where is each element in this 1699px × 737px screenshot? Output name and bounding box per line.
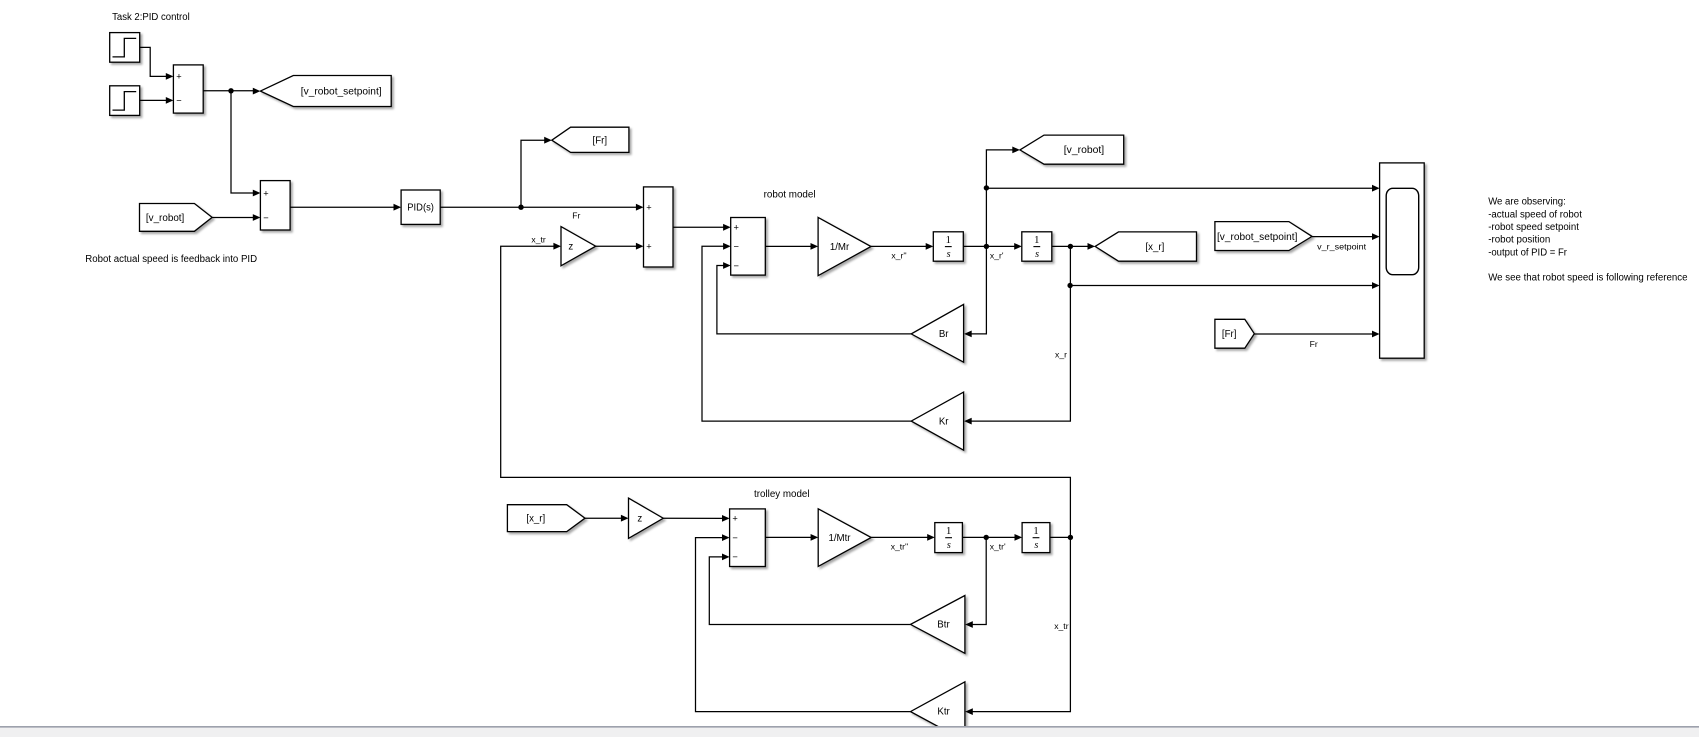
goto tag [v_robot_setpoint] [260, 76, 391, 107]
wire Integrator4 -> x_tr node [1050, 536, 1071, 538]
svg-text:x_tr'': x_tr'' [891, 541, 909, 551]
wire Gain Kr -> Sum4 input 2 [702, 243, 911, 421]
svg-text:[x_r]: [x_r] [526, 514, 545, 525]
wire Integrator3 -> Integrator4 [962, 534, 1022, 541]
svg-text:x_tr: x_tr [531, 234, 545, 244]
junction node on v_robot branch [984, 185, 989, 190]
svg-text:[v_robot]: [v_robot] [146, 213, 184, 224]
from tag [Fr] [1215, 319, 1254, 348]
gain triangle Kr (robot coupling feedback) [911, 392, 963, 450]
signal label x_tr (into gain z) [531, 234, 545, 244]
gain triangle Ktr (trolley coupling feedback) [911, 682, 965, 737]
gain triangle Br (robot friction feedback) [911, 304, 963, 362]
signal label x_r [1055, 350, 1067, 360]
wire PID(s) -> Sum3 input 1 (Fr signal) [440, 204, 643, 211]
svg-text:We are observing:: We are observing: [1488, 197, 1566, 208]
signal label x_tr' [990, 541, 1006, 551]
junction node x_tr output [1068, 535, 1073, 540]
svg-text:We see that robot speed is fol: We see that robot speed is following ref… [1488, 272, 1688, 283]
svg-text:+: + [176, 72, 181, 82]
svg-text:−: − [734, 261, 739, 271]
svg-text:Fr: Fr [572, 210, 580, 220]
svg-text:[Fr]: [Fr] [1222, 329, 1237, 340]
integrator block 1/s (trolley position) [1022, 523, 1050, 553]
wire [Fr] -> Scope input 4 [1254, 331, 1379, 338]
wire branch up -> Goto [Fr] [521, 137, 552, 207]
status bar (canvas bottom) [0, 726, 1699, 737]
svg-text:z: z [637, 513, 642, 524]
goto tag [x_r] [1095, 232, 1196, 261]
signal label x_tr'' [891, 541, 909, 551]
wire Sum2 -> PID(s) [290, 204, 401, 211]
svg-text:x_tr: x_tr [1054, 621, 1068, 631]
svg-text:x_r'': x_r'' [891, 251, 907, 261]
svg-text:x_r': x_r' [990, 251, 1004, 261]
svg-text:trolley model: trolley model [754, 489, 810, 500]
annotation: trolley model [754, 489, 810, 500]
junction node x_r -> scope [1067, 283, 1072, 288]
svg-text:1: 1 [946, 526, 951, 537]
from tag [v_robot] [140, 204, 213, 232]
wire v_robot branch -> Scope input 1 [986, 185, 1379, 192]
svg-text:s: s [1034, 540, 1038, 551]
svg-text:−: − [263, 213, 268, 223]
wire [x_r] -> Gain z (trolley) [585, 515, 629, 522]
wire Gain 1/Mtr -> Integrator3 [871, 534, 935, 541]
svg-text:+: + [734, 223, 739, 233]
wire Gain z -> Sum5 input 1 [663, 515, 729, 522]
svg-text:x_r: x_r [1055, 350, 1067, 360]
wire Gain Btr -> Sum5 input 3 [709, 554, 910, 625]
junction node on PID output [518, 205, 523, 210]
svg-text:1/Mr: 1/Mr [830, 242, 850, 253]
svg-text:-actual speed of robot: -actual speed of robot [1488, 209, 1582, 220]
svg-text:v_r_setpoint: v_r_setpoint [1317, 241, 1367, 251]
gain triangle 1/Mr [818, 217, 871, 275]
signal label v_r_setpoint [1317, 241, 1367, 251]
svg-text:−: − [732, 552, 737, 562]
signal label x_r'' [891, 251, 907, 261]
sum block Sum3 [644, 187, 674, 267]
integrator block 1/s (robot velocity) [933, 232, 963, 261]
gain triangle z (robot model coupling) [561, 227, 596, 266]
svg-text:+: + [263, 188, 268, 198]
svg-text:[v_robot]: [v_robot] [1064, 145, 1104, 156]
annotation: observing notes [1488, 197, 1688, 284]
svg-text:Robot actual speed is feedback: Robot actual speed is feedback into PID [85, 254, 257, 265]
wire Gain Ktr -> Sum5 input 2 [696, 534, 911, 711]
svg-text:Btr: Btr [937, 619, 950, 630]
integrator block 1/s (robot position) [1022, 232, 1052, 261]
scope block [1380, 163, 1425, 358]
svg-text:[Fr]: [Fr] [593, 136, 608, 147]
svg-text:[x_r]: [x_r] [1145, 242, 1164, 253]
svg-text:s: s [947, 540, 951, 551]
step source block Step2 [110, 86, 140, 116]
signal label x_tr (feedback) [1054, 621, 1068, 631]
annotation: Robot actual speed is feedback into PID [85, 254, 257, 265]
PID controller block PID(s) [401, 190, 440, 224]
wire [v_robot_setpoint] -> Scope input 2 [1312, 233, 1380, 240]
junction node x_r' (cross) [984, 244, 989, 249]
svg-text:s: s [1035, 249, 1039, 260]
from tag [v_robot_setpoint] [1215, 222, 1312, 251]
wire x_tr feedback (trolley position) -> Gain z [501, 243, 1071, 538]
sum block Sum5 (trolley dynamics) [730, 509, 766, 567]
wire [v_robot] -> Sum2 - input [212, 214, 260, 221]
svg-text:1/Mtr: 1/Mtr [828, 533, 851, 544]
signal label Fr (scope input) [1310, 339, 1318, 349]
annotation: Task 2:PID control [112, 12, 190, 23]
svg-text:Kr: Kr [939, 416, 949, 427]
svg-text:[v_robot_setpoint]: [v_robot_setpoint] [301, 87, 382, 98]
wire Sum5 -> Gain 1/Mtr [765, 534, 818, 541]
integrator block 1/s (trolley velocity) [935, 523, 963, 553]
sum block Sum1 [173, 65, 203, 113]
from tag [x_r] (trolley input) [507, 505, 585, 532]
svg-text:+: + [646, 242, 651, 252]
wire branch -> Sum2 + input [231, 91, 260, 197]
wire x_tr' branch down -> Gain Btr [965, 537, 986, 628]
svg-text:x_tr': x_tr' [990, 541, 1006, 551]
wire Sum3 -> Sum4 input 1 [673, 224, 731, 231]
wire Integrator1 -> Integrator2 [963, 243, 1022, 250]
signal label x_r' [990, 251, 1004, 261]
annotation: robot model [764, 190, 816, 201]
sum block Sum2 [260, 181, 290, 230]
junction node on Sum1 output [228, 88, 233, 93]
goto tag [Fr] [552, 127, 629, 152]
gain triangle Btr (trolley friction feedback) [911, 596, 965, 654]
wire x_r branch down (to Scope 3 and Gain Kr) [964, 246, 1070, 424]
svg-text:-robot position: -robot position [1488, 235, 1550, 246]
wire x_tr branch down -> Gain Ktr [965, 537, 1070, 715]
svg-text:+: + [732, 514, 737, 524]
junction node x_r output [1068, 244, 1073, 249]
wire Gain Br -> Sum4 input 3 [717, 262, 911, 334]
junction node x_tr' [984, 535, 989, 540]
wire Step2 -> Sum1 - input [140, 97, 174, 104]
goto tag [v_robot] [1020, 135, 1124, 164]
svg-text:PID(s): PID(s) [407, 203, 434, 214]
wire Integrator2 -> Goto [x_r] [1052, 243, 1095, 250]
wire x_r -> Scope input 3 [1070, 282, 1380, 289]
wire Sum1 -> Goto [v_robot_setpoint] [203, 88, 260, 95]
svg-text:-robot speed setpoint: -robot speed setpoint [1488, 222, 1579, 233]
svg-text:1: 1 [1034, 235, 1039, 246]
step source block Step1 [110, 33, 140, 63]
svg-text:robot model: robot model [764, 190, 816, 201]
wire x_r' branch up to [v_robot] goto [986, 147, 1020, 247]
wire Gain 1/Mr -> Integrator1 [871, 243, 933, 250]
svg-text:1: 1 [1033, 526, 1038, 537]
svg-text:Fr: Fr [1310, 339, 1318, 349]
svg-text:1: 1 [946, 235, 951, 246]
svg-text:Task 2:PID control: Task 2:PID control [112, 12, 190, 23]
svg-text:Br: Br [939, 329, 949, 340]
svg-text:+: + [646, 203, 651, 213]
wire gain z -> Sum3 input 2 [596, 243, 644, 250]
svg-text:−: − [734, 242, 739, 252]
signal label Fr [572, 210, 580, 220]
svg-text:−: − [176, 96, 181, 106]
sum block Sum4 (robot dynamics) [731, 218, 766, 276]
svg-text:-output of PID = Fr: -output of PID = Fr [1488, 247, 1568, 258]
wire Sum4 -> Gain 1/Mr [765, 243, 818, 250]
svg-text:Ktr: Ktr [937, 707, 950, 718]
svg-text:s: s [947, 249, 951, 260]
svg-text:[v_robot_setpoint]: [v_robot_setpoint] [1217, 232, 1297, 243]
wire Step1 -> Sum1 + input [140, 47, 174, 79]
svg-text:z: z [568, 241, 573, 252]
gain triangle z (trolley coupling) [629, 498, 664, 538]
gain triangle 1/Mtr [818, 509, 871, 567]
svg-text:−: − [732, 533, 737, 543]
wire x_r' branch down -> Gain Br [964, 246, 986, 337]
